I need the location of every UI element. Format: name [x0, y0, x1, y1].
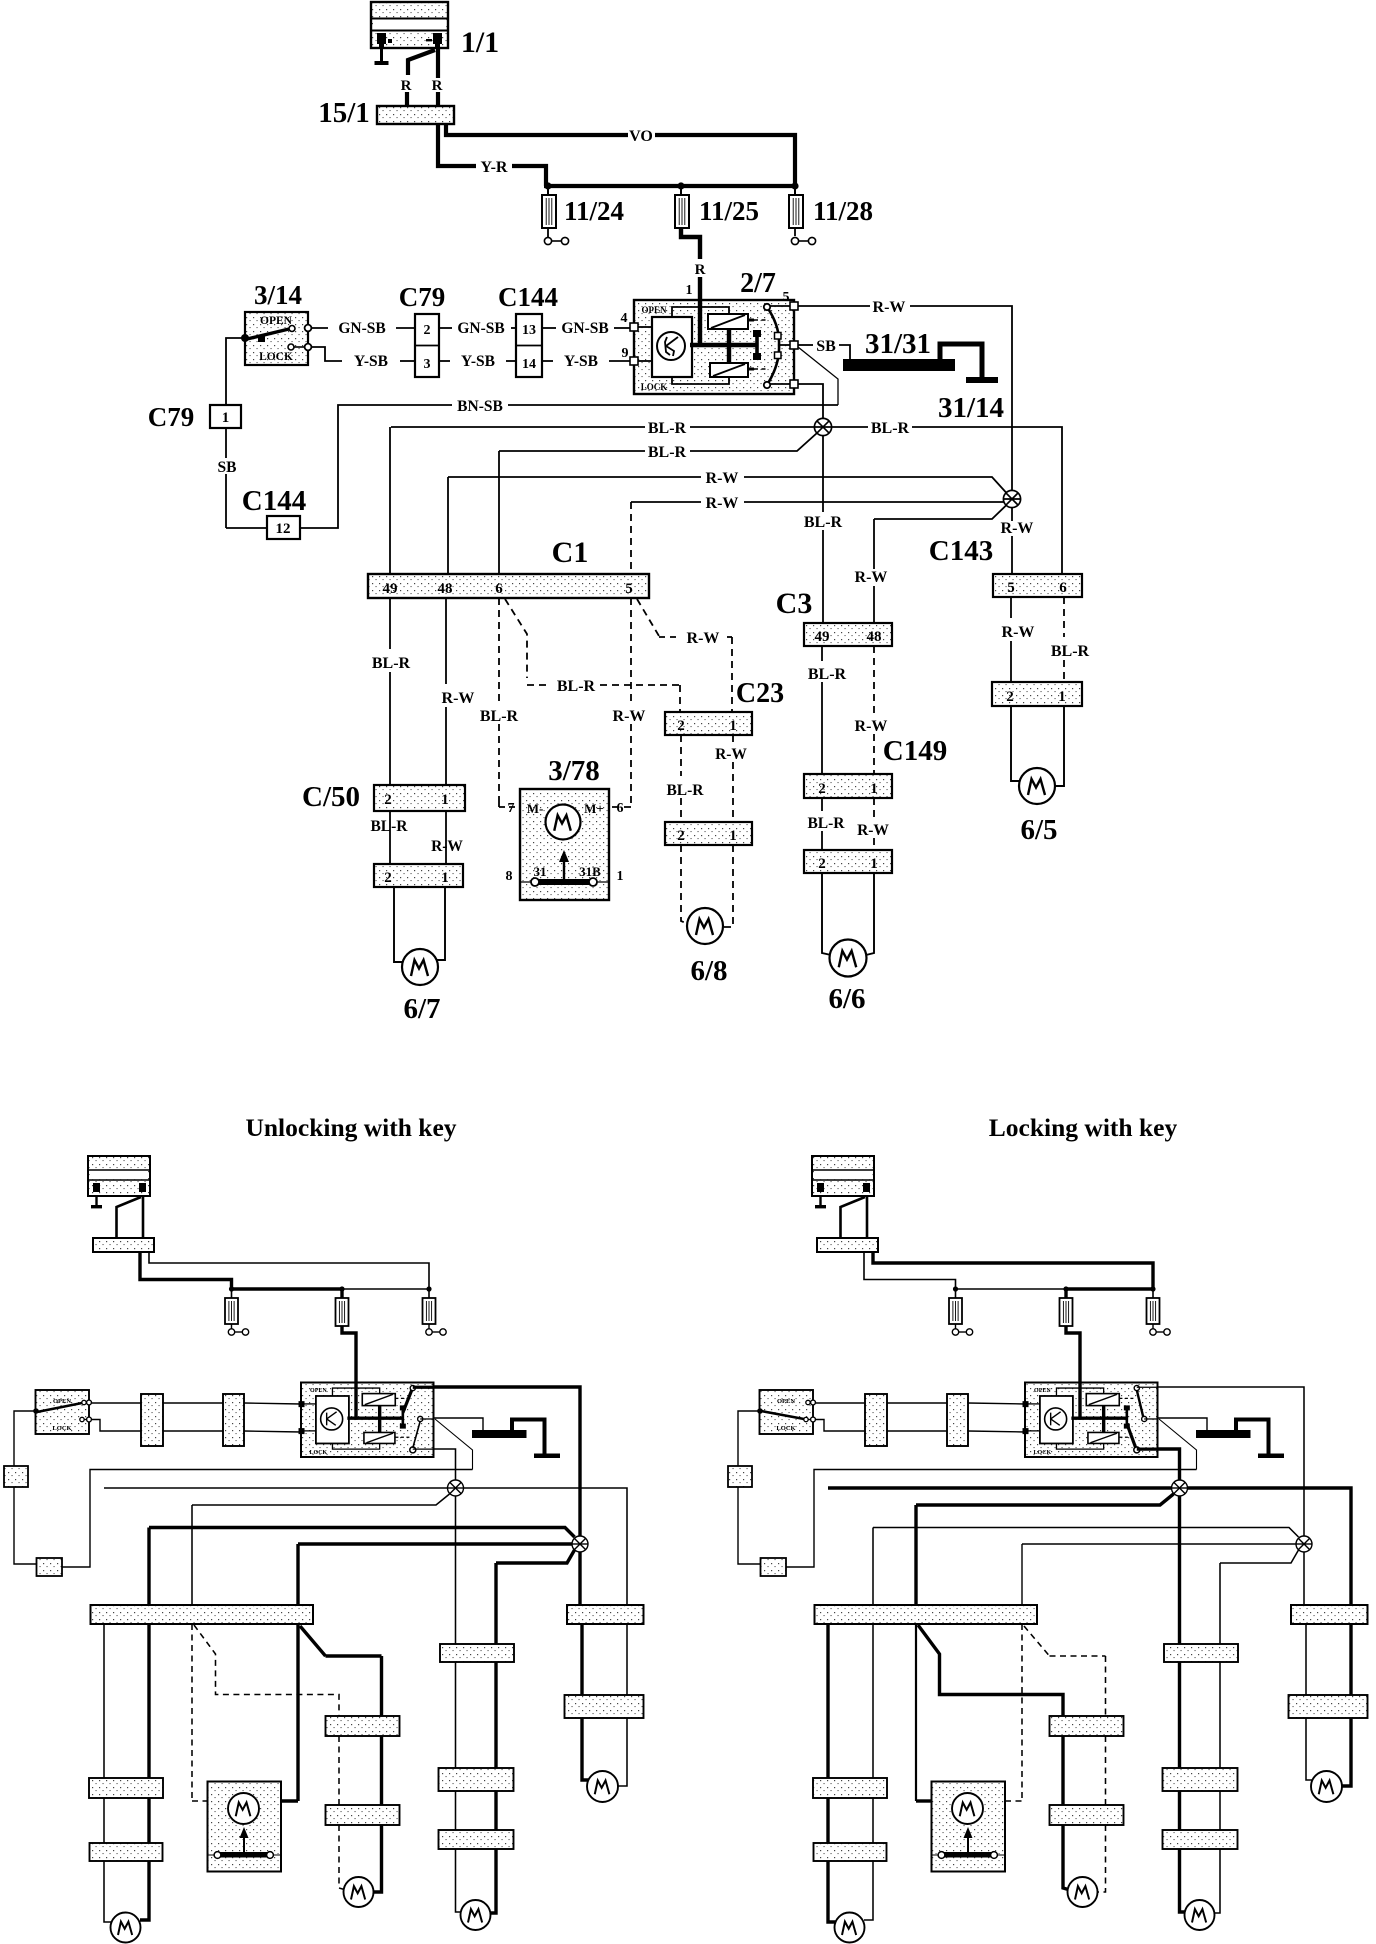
3/78 internal bottom bar [520, 881, 609, 883]
splice R-W (unlocking) [572, 1536, 588, 1552]
lock unit actuator (unlocking) [402, 1409, 405, 1426]
lock unit right pins (unlocking) [413, 1386, 434, 1389]
connector below C149 (unlocking) [439, 1830, 514, 1849]
connector below C23 (unlocking) [326, 1805, 400, 1825]
ground bar 31/31 (locking) [1196, 1430, 1251, 1438]
wire R left (battery to fusebox) [408, 50, 435, 75]
wire VO path (unlocking) [149, 1252, 429, 1289]
connector below C50 (locking) [814, 1843, 887, 1861]
svg-text:GN-SB: GN-SB [457, 320, 504, 337]
wire GN-SB C79 to C144 [439, 327, 452, 329]
svg-text:1: 1 [617, 869, 624, 884]
svg-text:8: 8 [506, 869, 513, 884]
svg-text:LOCK: LOCK [1034, 1450, 1052, 1456]
splice branch to C3 (locking) [1220, 1550, 1299, 1563]
ground link (locking) [1236, 1420, 1269, 1455]
connector bar B (locking) [947, 1394, 968, 1446]
battery ground (unlocking) [95, 1196, 97, 1206]
C79-1 box (unlocking) [4, 1466, 28, 1487]
svg-text:R-W: R-W [873, 299, 906, 316]
svg-text:LOCK: LOCK [52, 1425, 71, 1432]
battery (unlocking) [88, 1156, 150, 1196]
connector below C50 (unlocking) [90, 1843, 163, 1861]
wires to motor 6/7 [394, 887, 403, 962]
2/7 internal wiring [672, 307, 729, 317]
fuse 2 (locking) [1064, 1289, 1067, 1298]
tailgate lock motor 3/78 [520, 789, 609, 900]
lock unit relays (unlocking) [362, 1394, 395, 1406]
svg-text:OPEN: OPEN [260, 315, 293, 327]
battery wires (unlocking) [117, 1197, 142, 1238]
svg-text:31: 31 [534, 864, 547, 879]
svg-text:LOCK: LOCK [641, 382, 668, 392]
wires below C3 [821, 646, 823, 661]
pin6 branch to C23 (locking) [918, 1625, 1063, 1716]
pin3 wire to splice (unlocking) [434, 1449, 456, 1480]
svg-text:R-W: R-W [687, 630, 720, 647]
ground link (unlocking) [512, 1420, 545, 1455]
SB wire (unlocking) [14, 1487, 37, 1564]
lock unit pin1 feed (locking) [1078, 1383, 1081, 1420]
wire SB from 3/14 to C79 pin 1 [226, 338, 245, 405]
svg-text:C143: C143 [929, 535, 993, 567]
motor 6/7 [402, 949, 438, 985]
SB ground wire (locking) [1158, 1418, 1208, 1430]
tailgate motor 3/78 (locking) [932, 1782, 1006, 1872]
svg-text:GN-SB: GN-SB [338, 320, 385, 337]
wires below C23 (unlocking) [338, 1736, 340, 1805]
upper switch wire (unlocking) [91, 1402, 141, 1404]
motor 6/7 (locking) [835, 1913, 865, 1943]
junction at fuse 11/28 [791, 182, 798, 189]
C79-1 box (locking) [728, 1466, 752, 1487]
BL-R horizontal (locking) [828, 1486, 1172, 1489]
wire Y-SB 3/14 to C79 [311, 347, 342, 361]
connector below C143 (unlocking) [565, 1695, 644, 1718]
motor 6/8 (unlocking) [344, 1877, 374, 1907]
svg-text:5: 5 [1007, 580, 1015, 596]
switch lever 3/14 [247, 329, 289, 339]
wire R to lock unit (unlocking) [342, 1326, 356, 1382]
wire R fuse 11/25 to 2/7 pin 1 [681, 228, 700, 259]
svg-text:BL-R: BL-R [808, 666, 847, 683]
svg-text:6/5: 6/5 [1020, 814, 1057, 846]
svg-text:1: 1 [222, 410, 230, 426]
svg-text:BL-R: BL-R [666, 782, 704, 799]
wire SB below C79-1 [225, 428, 227, 458]
wire R to lock unit (locking) [1066, 1326, 1080, 1382]
svg-text:1: 1 [729, 718, 737, 734]
connector C3 (unlocking) [440, 1644, 514, 1662]
svg-text:SB: SB [218, 459, 237, 476]
upper switch wire (locking) [815, 1402, 865, 1404]
svg-text:GN-SB: GN-SB [561, 320, 608, 337]
svg-text:31/14: 31/14 [938, 392, 1004, 424]
svg-text:3: 3 [424, 357, 431, 372]
junction at fuse 11/24 [544, 182, 551, 189]
ground 31/14 [966, 377, 998, 383]
svg-text:R: R [695, 262, 706, 278]
connector C1 (locking) [815, 1605, 1038, 1624]
svg-text:6/7: 6/7 [403, 993, 440, 1025]
connector below C149 (locking) [1163, 1830, 1238, 1849]
tailgate motor 3/78 (unlocking) [208, 1782, 282, 1872]
pin5 wire to 3/78 (unlocking) [296, 1624, 299, 1801]
svg-text:2: 2 [677, 828, 685, 844]
svg-text:6: 6 [1059, 580, 1067, 596]
fusebox 15/1 [377, 106, 454, 124]
splice branch to C3 (unlocking) [496, 1550, 575, 1563]
svg-text:C149: C149 [883, 735, 947, 767]
svg-text:48: 48 [867, 629, 882, 645]
ground 31/31 [843, 359, 955, 371]
svg-text:4: 4 [621, 311, 628, 326]
connector C149 (unlocking) [439, 1768, 514, 1791]
2/7 pin 1 feed [698, 300, 702, 347]
fusebox (unlocking) [93, 1238, 154, 1252]
wire BN-SB from C144-12 [300, 405, 452, 528]
svg-text:31/31: 31/31 [865, 328, 931, 360]
lock unit relays (locking) [1086, 1394, 1119, 1406]
connector C149 [804, 774, 892, 798]
svg-text:BL-R: BL-R [1051, 643, 1090, 660]
connector below fuse 11/28 [794, 228, 796, 236]
R-W upper horizontal (unlocking) [149, 1528, 575, 1538]
wires below C1 left (unlocking) [103, 1624, 105, 1778]
svg-text:R-W: R-W [855, 718, 888, 735]
svg-text:1: 1 [441, 870, 449, 886]
connector C3 (locking) [1164, 1644, 1238, 1662]
wire R right (battery to fusebox) [436, 48, 440, 78]
connector bar A (unlocking) [141, 1394, 163, 1446]
lock unit switch contacts (locking) [1134, 1385, 1139, 1390]
lock unit pin1 feed (unlocking) [354, 1383, 357, 1420]
connector C143 (locking) [1291, 1605, 1368, 1624]
svg-text:OPEN: OPEN [777, 1398, 795, 1405]
ground below battery [380, 48, 383, 62]
svg-text:R-W: R-W [431, 838, 463, 855]
fuse 1 (unlocking) [231, 1289, 233, 1298]
connector C23 (unlocking) [326, 1716, 400, 1736]
R-W lower horizontal (locking) [1022, 1543, 1296, 1545]
lower switch wire (unlocking) [91, 1420, 141, 1432]
svg-text:12: 12 [276, 521, 291, 537]
motor 6/6 (unlocking) [461, 1900, 491, 1930]
wires below C143 (locking) [1305, 1624, 1307, 1695]
svg-text:R-W: R-W [857, 822, 889, 839]
pin5 branch to C23 (locking) [1024, 1626, 1050, 1657]
wires below C23 (locking) [1061, 1736, 1064, 1805]
wire Y-R [438, 124, 476, 166]
wires below C143 (unlocking) [580, 1624, 583, 1695]
C144-12 box (unlocking) [37, 1558, 63, 1576]
svg-text:R: R [401, 78, 412, 94]
svg-text:7: 7 [508, 801, 515, 816]
wire VO path (locking) [873, 1252, 1153, 1289]
svg-text:6/6: 6/6 [828, 983, 865, 1015]
switch lever (unlocking) [37, 1403, 82, 1412]
svg-text:R-W: R-W [706, 470, 739, 487]
wire splice branch to C3 pin 48 [874, 505, 1007, 519]
svg-text:6: 6 [495, 581, 503, 597]
connector C143 (unlocking) [567, 1605, 644, 1624]
splice R-W (locking) [1296, 1536, 1312, 1552]
connector below fuse 11/24 [547, 228, 549, 237]
motor 6/8 (locking) [1068, 1877, 1098, 1907]
svg-text:2: 2 [384, 870, 392, 886]
svg-text:BN-SB: BN-SB [457, 398, 503, 415]
svg-text:R-W: R-W [1001, 520, 1034, 537]
svg-text:48: 48 [438, 581, 453, 597]
BN-SB link (unlocking) [435, 1419, 473, 1470]
splice BL-R (unlocking) [448, 1480, 464, 1496]
BL-R splice down (locking) [1178, 1496, 1181, 1644]
wires below C3 (locking) [1178, 1662, 1181, 1768]
wire BL-R C1-6 dashed down to 3/78 [498, 598, 500, 706]
splice BL-R (locking) [1172, 1480, 1188, 1496]
svg-text:R: R [432, 78, 443, 94]
svg-text:SB: SB [816, 338, 836, 355]
connector below C143 [992, 682, 1082, 706]
wire 2/7 pin 3 to splice [798, 384, 823, 419]
svg-text:C/50: C/50 [302, 781, 360, 813]
junction at fuse 11/25 [677, 182, 684, 189]
svg-text:BL-R: BL-R [871, 420, 910, 437]
lower switch wire (locking) [815, 1420, 865, 1432]
pin6 wire to 3/78 (locking) [915, 1624, 917, 1801]
BL-R lower horizontal (locking) [916, 1494, 1174, 1505]
battery (locking) [812, 1156, 874, 1196]
wire pin2 to BN-SB link [798, 347, 838, 405]
svg-text:13: 13 [522, 323, 536, 338]
wires into C1 [389, 427, 391, 574]
lock unit lever (locking) [1127, 1424, 1136, 1448]
svg-text:BL-R: BL-R [557, 678, 596, 695]
svg-text:6/8: 6/8 [690, 955, 727, 987]
ground link 31/31 to 31/14 [940, 344, 982, 378]
svg-text:C1: C1 [552, 536, 589, 569]
wire GN-SB 3/14 to C79 [311, 327, 328, 329]
wire SB from 2/7 pin 2 [798, 344, 813, 346]
splice to C143 (locking) [1303, 1552, 1305, 1605]
wire BL-R splice down to C3 pin 49 [822, 436, 824, 512]
svg-text:R-W: R-W [1002, 624, 1035, 641]
fuse 11/24 [547, 186, 549, 195]
svg-text:2: 2 [384, 792, 392, 808]
svg-text:Y-SB: Y-SB [354, 353, 388, 370]
svg-text:5: 5 [625, 581, 633, 597]
2/7 pin squares left [630, 323, 638, 331]
motor 6/8 [687, 908, 723, 944]
svg-text:1: 1 [870, 856, 878, 872]
wires C23 to lower connector 6/8 [680, 735, 682, 776]
svg-text:BL-R: BL-R [804, 514, 843, 531]
svg-text:BL-R: BL-R [648, 444, 687, 461]
svg-text:R-W: R-W [442, 690, 475, 707]
svg-text:Unlocking with key: Unlocking with key [245, 1113, 456, 1142]
lock unit (locking) [1025, 1383, 1158, 1458]
wire BL-R main horizontal [391, 426, 645, 428]
ground 31/14 (locking) [1258, 1454, 1284, 1459]
svg-text:2: 2 [818, 781, 826, 797]
wire R-W splice to C143 pin 5 [1011, 508, 1013, 521]
ground 31/14 (unlocking) [534, 1454, 560, 1459]
fuse bus (locking) [956, 1288, 1067, 1290]
svg-text:31B: 31B [579, 864, 601, 879]
svg-text:OPEN: OPEN [310, 1388, 327, 1394]
svg-text:1: 1 [1058, 689, 1066, 705]
connector C1 (unlocking) [91, 1605, 314, 1624]
switch left wire (unlocking) [14, 1411, 36, 1466]
wires to motor 6/5 [1011, 706, 1020, 781]
fuse 2 (unlocking) [340, 1289, 343, 1298]
svg-text:3/78: 3/78 [548, 755, 600, 787]
wire BL-R lower horizontal [499, 450, 645, 452]
connector C23 (locking) [1050, 1716, 1124, 1736]
motor 6/7 (unlocking) [111, 1913, 141, 1943]
svg-text:Locking with key: Locking with key [989, 1113, 1178, 1142]
ground bar 31/31 (unlocking) [472, 1430, 527, 1438]
svg-text:C144: C144 [498, 282, 558, 312]
R-W feed wire (locking) [1158, 1387, 1305, 1536]
2/7 relay upper [708, 314, 748, 329]
splice BL-R [814, 418, 831, 435]
R-W upper horizontal (locking) [873, 1528, 1299, 1538]
wire R-W from 2/7 pin 5 [798, 305, 870, 307]
connector C50 (locking) [813, 1778, 887, 1798]
lock unit actuator (locking) [1126, 1409, 1129, 1426]
wire R-W upper horizontal [448, 476, 701, 478]
BN-SB wire (unlocking) [62, 1470, 473, 1568]
C144-12 box (locking) [761, 1558, 787, 1576]
2/7 key unit box [652, 317, 692, 377]
svg-text:Y-SB: Y-SB [461, 353, 495, 370]
svg-text:1/1: 1/1 [461, 26, 499, 59]
wire bus to fuses [544, 184, 797, 188]
2/7 pin squares right [790, 302, 798, 310]
motor 6/5 [1019, 768, 1055, 804]
connector C/50 [374, 785, 465, 811]
svg-text:1: 1 [441, 792, 449, 808]
svg-text:2: 2 [677, 718, 685, 734]
3/78 arrow [563, 858, 565, 880]
svg-text:11/24: 11/24 [564, 196, 624, 226]
central locking unit 2/7 [634, 300, 794, 394]
fusebox (locking) [817, 1238, 878, 1252]
svg-text:BL-R: BL-R [370, 818, 408, 835]
motor 6/6 (locking) [1185, 1900, 1215, 1930]
svg-text:49: 49 [815, 629, 830, 645]
svg-text:OPEN: OPEN [53, 1398, 71, 1405]
connector C1 [368, 574, 649, 598]
svg-text:C144: C144 [242, 485, 306, 517]
svg-text:OPEN: OPEN [641, 305, 667, 315]
fuse 11/25 [680, 186, 682, 195]
svg-text:1: 1 [729, 828, 737, 844]
svg-text:BL-R: BL-R [648, 420, 687, 437]
connector below C23 [665, 822, 752, 845]
svg-text:LOCK: LOCK [310, 1450, 328, 1456]
svg-text:2: 2 [424, 323, 431, 338]
pin3 wire to splice (locking) [1158, 1449, 1180, 1480]
splice to C143 (unlocking) [578, 1552, 581, 1605]
connector bar B (unlocking) [223, 1394, 244, 1446]
svg-text:C79: C79 [148, 402, 195, 432]
connector below C143 (locking) [1289, 1695, 1368, 1718]
wire BL-R C1-49 to C/50 [389, 598, 391, 649]
lock unit lever (unlocking) [403, 1390, 412, 1413]
svg-text:BL-R: BL-R [807, 815, 845, 832]
svg-text:2: 2 [818, 856, 826, 872]
SB wire (locking) [738, 1487, 761, 1564]
wires below C1 left (locking) [826, 1624, 829, 1778]
pin6 branch to C23 (unlocking) [194, 1625, 339, 1716]
BL-R splice down (unlocking) [455, 1496, 457, 1644]
svg-text:49: 49 [383, 581, 398, 597]
battery 1/1 [371, 2, 448, 48]
connector C149 (locking) [1163, 1768, 1238, 1791]
lock unit switch contacts (unlocking) [410, 1385, 415, 1390]
svg-text:6: 6 [617, 801, 624, 816]
svg-text:14: 14 [522, 357, 536, 372]
R-W feed wire (unlocking) [434, 1387, 581, 1536]
splice R-W [1003, 490, 1020, 507]
wires below C143 [1010, 597, 1012, 618]
svg-text:M-: M- [527, 801, 544, 816]
wires below C/50 [389, 811, 391, 864]
svg-text:M+: M+ [584, 801, 604, 816]
svg-text:C23: C23 [736, 678, 784, 709]
svg-text:VO: VO [629, 128, 653, 145]
pin6 wire to 3/78 (unlocking) [191, 1624, 193, 1801]
connector below C23 (locking) [1050, 1805, 1124, 1825]
motor 6/5 (unlocking) [587, 1771, 618, 1802]
door lock switch 3/14 [245, 312, 308, 365]
svg-text:BL-R: BL-R [372, 655, 411, 672]
wire R-W C1-5 branch to C23 pin 1 [637, 599, 659, 637]
svg-text:2: 2 [1006, 689, 1014, 705]
svg-text:R-W: R-W [706, 495, 739, 512]
connector C23 [665, 712, 752, 735]
connector C50 (unlocking) [89, 1778, 163, 1798]
lock unit right pins (locking) [1137, 1386, 1158, 1388]
battery ground (locking) [819, 1196, 821, 1206]
svg-text:2/7: 2/7 [740, 268, 776, 299]
svg-text:BL-R: BL-R [480, 708, 519, 725]
battery wires (locking) [841, 1197, 866, 1238]
motor 6/6 [830, 940, 867, 977]
pin5 branch to C23 (unlocking) [300, 1626, 326, 1657]
wire BL-R C1-6 branch to C23 pin 2 [505, 599, 527, 678]
svg-text:11/28: 11/28 [813, 196, 873, 226]
BL-R horizontal (unlocking) [104, 1487, 448, 1489]
wires below C149 [821, 798, 823, 811]
BN-SB link (locking) [1159, 1419, 1197, 1470]
2/7 selector arc [767, 307, 779, 385]
wires to motor 6/8 [681, 845, 688, 924]
wire R-W lower horizontal [631, 501, 701, 503]
wire Y-R path (locking) [864, 1252, 956, 1289]
wires below C3 (unlocking) [455, 1662, 457, 1768]
svg-text:LOCK: LOCK [776, 1425, 795, 1432]
fuse bus (unlocking) [232, 1287, 343, 1290]
BN-SB wire (locking) [786, 1470, 1197, 1568]
svg-text:1: 1 [686, 283, 693, 298]
wire Y-R path (unlocking) [140, 1252, 232, 1289]
fuse 1 (locking) [955, 1289, 957, 1298]
wire Y-SB C144 to 2/7 pin 9 [542, 360, 553, 362]
R-W lower horizontal (unlocking) [298, 1542, 572, 1545]
